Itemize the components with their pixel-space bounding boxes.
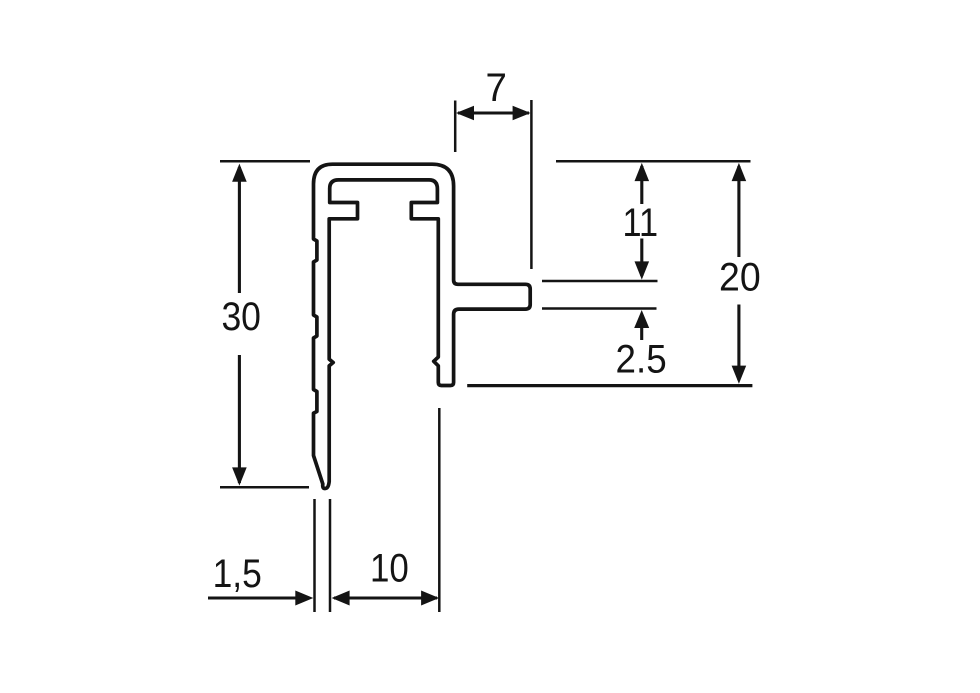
dim 30 line bbox=[238, 167, 241, 483]
ext right top bbox=[556, 160, 751, 163]
bottom long line bbox=[467, 384, 752, 387]
dim 10 line bbox=[334, 596, 437, 599]
ext 7 left bbox=[454, 101, 457, 153]
ext below tip pair bbox=[315, 499, 331, 612]
dim 11 line bbox=[640, 166, 643, 276]
dim 20 arrow down bbox=[732, 366, 747, 384]
ext 7 right bbox=[530, 100, 533, 269]
extension line left bottom bbox=[220, 486, 309, 489]
dim 10 arrow right bbox=[421, 591, 439, 606]
dim 20 arrow up bbox=[732, 163, 747, 181]
profile cross-section outline bbox=[314, 164, 531, 488]
svg-text:10: 10 bbox=[370, 547, 409, 591]
svg-text:11: 11 bbox=[623, 201, 659, 245]
svg-text:1,5: 1,5 bbox=[213, 552, 262, 596]
dim 7 line bbox=[458, 111, 529, 114]
dim 20 line bbox=[737, 166, 740, 380]
ext bottom right bbox=[438, 408, 441, 612]
dim 30 arrow down bbox=[232, 467, 247, 485]
dim 10 arrow left bbox=[332, 591, 350, 606]
dim 1,5 line bbox=[208, 596, 298, 599]
svg-text:20: 20 bbox=[719, 256, 761, 300]
dim 7 arrow right bbox=[513, 106, 531, 120]
ext arm top bbox=[542, 280, 658, 283]
ext arm bottom bbox=[542, 307, 657, 310]
dim 11 arrow down bbox=[635, 261, 650, 279]
extension line left top bbox=[220, 160, 310, 163]
svg-text:7: 7 bbox=[486, 66, 507, 110]
dim 30 arrow up bbox=[232, 164, 247, 182]
svg-text:30: 30 bbox=[221, 295, 261, 339]
dim 2.5 arrow up bbox=[634, 310, 649, 328]
dim 11 arrow up bbox=[635, 163, 650, 181]
dim 7 arrow left bbox=[456, 106, 474, 120]
svg-text:2.5: 2.5 bbox=[616, 337, 667, 381]
dim 1,5 arrow bbox=[295, 591, 313, 606]
dim 2.5 stem bbox=[640, 326, 643, 340]
